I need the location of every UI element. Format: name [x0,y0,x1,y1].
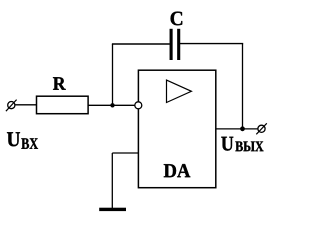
label U_BX input voltage [7,132,20,146]
wire feedback top left [112,43,170,45]
ground [99,208,126,211]
label BYX subscript [235,142,263,152]
wire feedback top right [180,43,243,45]
input terminal [6,100,17,112]
label R [53,77,66,89]
resistor R [37,96,89,114]
wire to ground [111,153,113,208]
wire non-inverting input [112,152,138,154]
wire resistor to op-amp input [88,104,135,106]
op-amp triangle symbol [167,80,192,102]
wire feedback left vertical [112,44,114,105]
node output junction [240,126,245,131]
output terminal [256,123,267,134]
label DA [164,164,191,177]
node input junction [110,103,114,107]
wire input to resistor [15,104,37,106]
inverting input bubble [135,102,142,109]
op-amp DA box [138,70,215,188]
capacitor C [171,29,179,60]
wire output [216,128,258,130]
label U_BbIX output voltage [221,137,233,151]
wire feedback right vertical [242,44,244,129]
label BX subscript [21,138,38,148]
label C [171,12,183,26]
